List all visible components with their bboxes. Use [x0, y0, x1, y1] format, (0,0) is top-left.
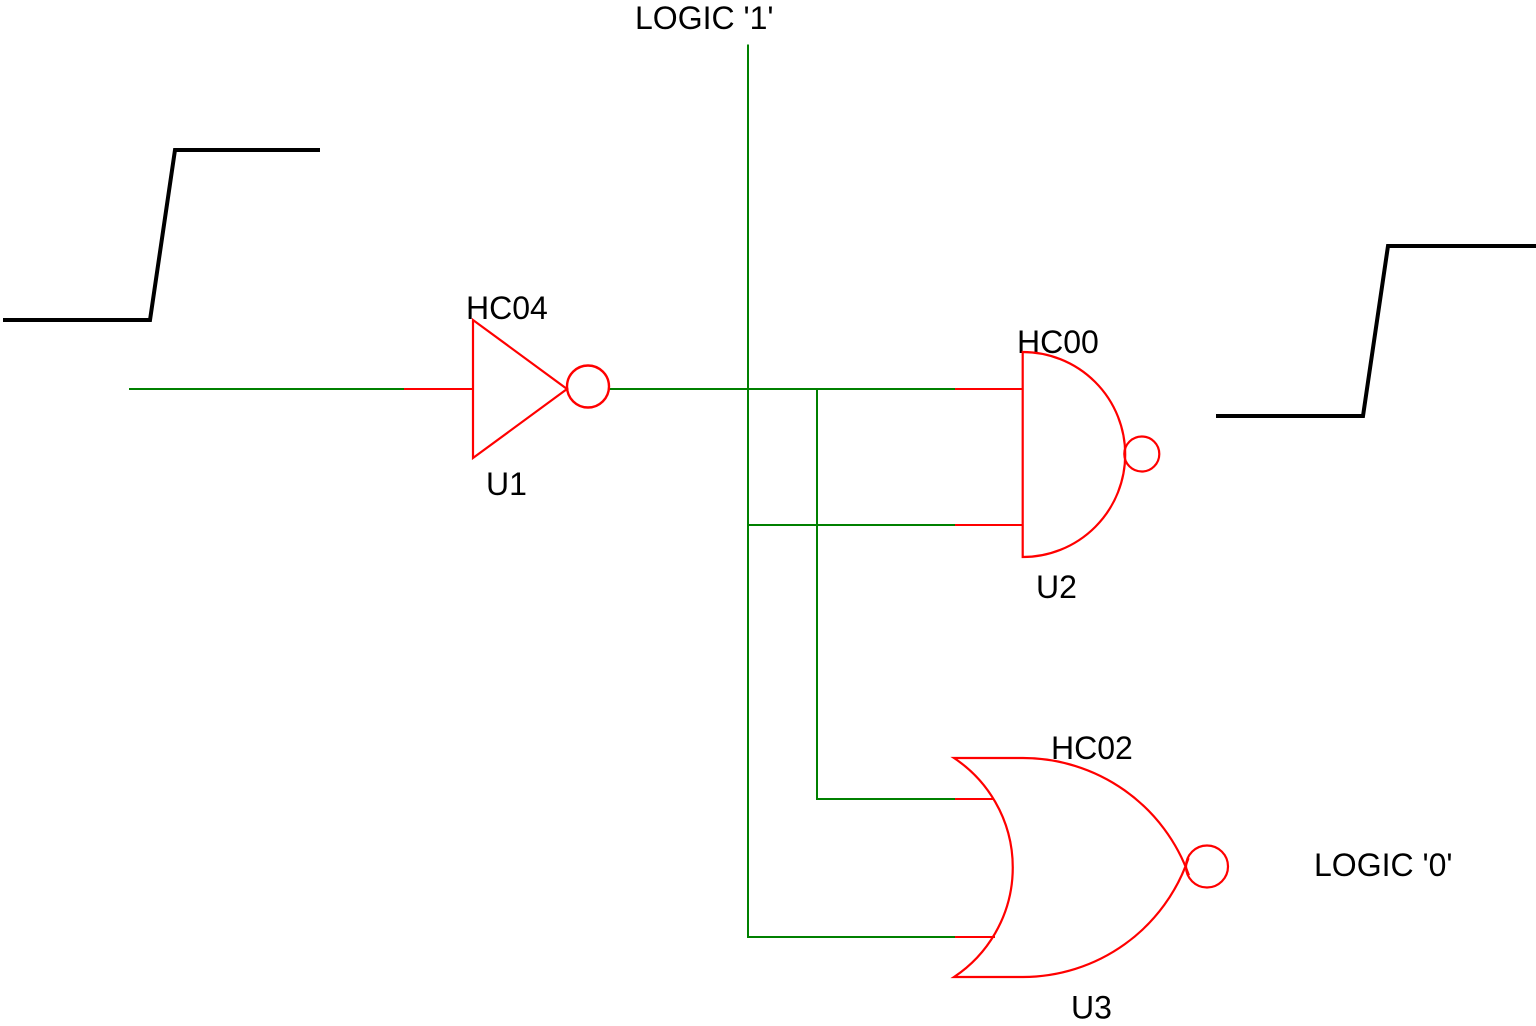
wire inverter input: [129, 388, 405, 390]
NOR U3 bottom input pin: [955, 936, 995, 938]
svg-text:U3: U3: [1071, 990, 1112, 1026]
wire NOR bottom input horizontal: [747, 936, 955, 938]
waveform right output: [1216, 246, 1536, 416]
wire vertical branch to NOR top input: [816, 389, 818, 799]
NAND U2 bottom input pin: [955, 524, 1023, 526]
inverter U1 input pin: [404, 388, 473, 390]
svg-text:U2: U2: [1036, 569, 1077, 605]
NAND U2 top input pin: [955, 388, 1023, 390]
waveform left input: [3, 150, 320, 320]
NOR U3 top input pin: [955, 798, 993, 800]
wire NOR top input horizontal: [816, 798, 955, 800]
svg-text:HC02: HC02: [1051, 730, 1133, 766]
inverter U1 triangle: [473, 320, 567, 458]
NAND U2 body: [1023, 352, 1125, 557]
svg-text:LOGIC '0': LOGIC '0': [1314, 847, 1452, 883]
wire inverter output to NAND top input: [609, 388, 955, 390]
wire NAND bottom input from LOGIC '1' net: [748, 524, 955, 526]
svg-text:HC04: HC04: [466, 290, 548, 326]
inverter U1 output bubble: [567, 366, 609, 408]
svg-text:HC00: HC00: [1017, 324, 1099, 360]
NOR U3 body: [954, 758, 1189, 977]
svg-text:U1: U1: [486, 466, 527, 502]
wire LOGIC '1' vertical net: [747, 45, 749, 939]
NOR U3 output bubble: [1186, 846, 1228, 888]
NAND U2 output bubble: [1124, 437, 1159, 472]
svg-text:LOGIC '1': LOGIC '1': [635, 0, 773, 36]
